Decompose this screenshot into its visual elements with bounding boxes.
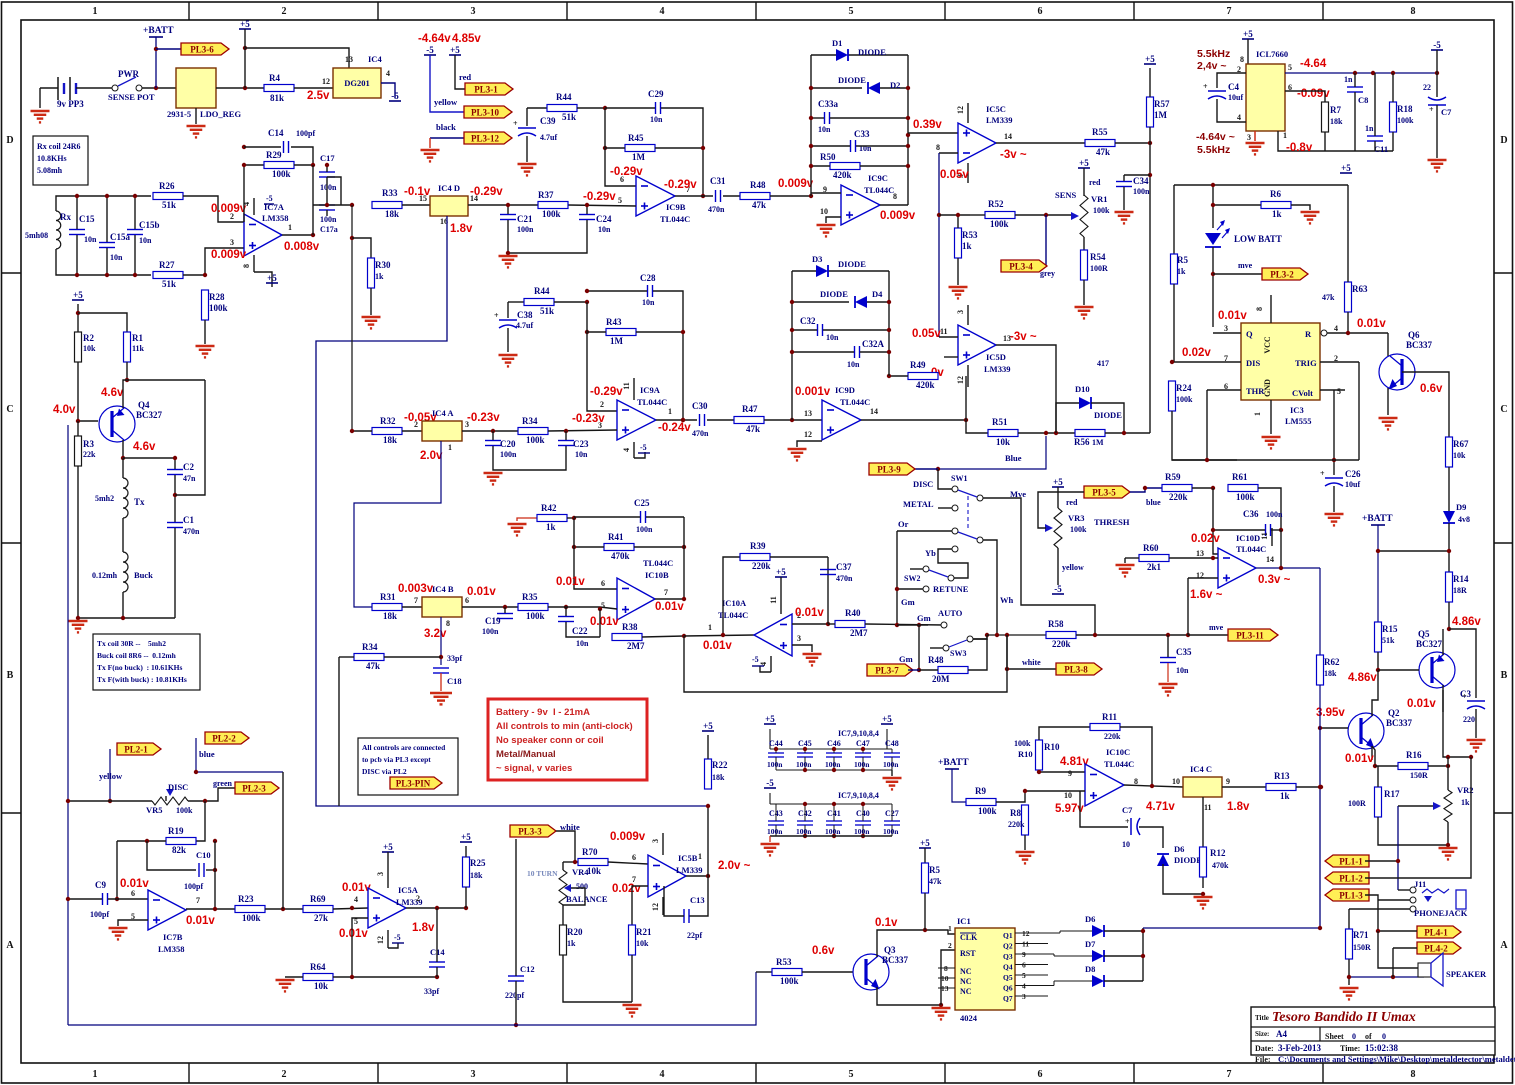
junction r43: [681, 330, 685, 422]
svg-text:IC10C: IC10C: [1106, 747, 1130, 757]
svg-text:10n: 10n: [576, 639, 589, 648]
svg-text:220: 220: [1463, 715, 1475, 724]
svg-text:BALANCE: BALANCE: [566, 894, 608, 904]
svg-text:DG201: DG201: [344, 78, 370, 88]
svg-text:C46: C46: [827, 739, 841, 748]
svg-text:red: red: [459, 72, 471, 82]
ground: [362, 317, 381, 328]
junction fb: [242, 145, 246, 167]
svg-text:1: 1: [288, 223, 292, 232]
svg-text:4.7uf: 4.7uf: [516, 321, 533, 330]
wire c12 bottom: [515, 981, 517, 1025]
svg-text:AUTO: AUTO: [938, 608, 963, 618]
wire r17 top: [1377, 766, 1379, 787]
svg-text:3: 3: [1224, 324, 1228, 333]
svg-text:14: 14: [1004, 132, 1012, 141]
svg-text:R42: R42: [541, 503, 557, 513]
svg-text:100n: 100n: [1133, 187, 1150, 196]
svg-text:10n: 10n: [575, 450, 588, 459]
wire d1 rail left: [810, 55, 812, 196]
inductor Rx: [56, 211, 61, 249]
decoupling bank +5: [764, 714, 893, 770]
op-amp IC5A: [368, 888, 406, 928]
svg-text:C30: C30: [692, 401, 708, 411]
wire sw3 stub: [930, 647, 943, 649]
svg-text:-5: -5: [752, 655, 759, 664]
wire bottom long bus: [68, 972, 756, 1025]
svg-text:R14: R14: [1453, 574, 1469, 584]
wire r61 right: [1258, 488, 1281, 530]
ground: [508, 524, 527, 535]
svg-text:BC327: BC327: [136, 410, 163, 420]
wire d2 row b: [880, 87, 908, 89]
wire c32a b: [860, 351, 889, 353]
svg-text:Q2: Q2: [1003, 942, 1013, 951]
svg-text:R11: R11: [1102, 712, 1118, 722]
wire wiper down: [165, 796, 167, 801]
wire c1 bottom: [174, 528, 176, 618]
svg-text:1.6v ~: 1.6v ~: [1190, 589, 1223, 601]
svg-text:DIS: DIS: [1246, 358, 1260, 368]
wire c18 bottom: [440, 673, 442, 691]
power stub IC5B 3: [662, 833, 664, 855]
power stub IC5C pin3: [967, 163, 969, 183]
power stub IC10A +5: [780, 592, 782, 614]
resistor R16: [1398, 750, 1428, 770]
svg-text:SPEAKER: SPEAKER: [1446, 969, 1487, 979]
junction c20: [491, 429, 495, 433]
wire r49 loop: [965, 376, 967, 420]
wire c28 right: [653, 291, 683, 420]
svg-text:R8: R8: [1010, 808, 1021, 818]
junction c23: [564, 429, 568, 433]
resistor R4: [264, 73, 294, 103]
svg-text:B: B: [1501, 670, 1508, 681]
wire 7660 pin2: [1217, 73, 1246, 88]
switch SW1b: [952, 528, 983, 543]
transistor Q3: [853, 945, 909, 990]
wire to PL3-6: [156, 48, 181, 50]
wire c34 tap: [1124, 174, 1150, 176]
svg-text:VCC: VCC: [1263, 336, 1272, 354]
wire ic4d out: [468, 204, 538, 206]
wire c17 chain: [326, 165, 328, 172]
svg-text:R47: R47: [742, 404, 758, 414]
wire feedback up: [244, 165, 264, 222]
svg-text:Q6: Q6: [1003, 984, 1013, 993]
junction out 14: [1279, 566, 1283, 570]
resistor R63: [1345, 282, 1368, 312]
wire r5 bottom: [1173, 284, 1175, 362]
diode D6: [1157, 854, 1169, 866]
switch SW1: [951, 474, 983, 501]
capacitor C15b: [127, 220, 160, 235]
wire c31 to r48: [723, 195, 740, 197]
svg-text:R51: R51: [992, 417, 1008, 427]
wire q5 emitter up: [1442, 629, 1444, 655]
svg-text:100pf: 100pf: [184, 882, 203, 891]
capacitor C40: [854, 804, 871, 836]
wire pl4-2 down: [1392, 948, 1394, 977]
wire ic9d out: [861, 419, 966, 421]
svg-text:+5: +5: [1053, 477, 1063, 487]
svg-text:C32A: C32A: [862, 339, 884, 349]
wire ground rail: [78, 617, 175, 619]
op-amp IC9B: [636, 176, 675, 216]
IC ICL7660: [1246, 64, 1285, 131]
capacitor C48: [883, 739, 900, 770]
capacitor C46: [825, 739, 842, 770]
svg-text:0.01v: 0.01v: [1345, 753, 1374, 765]
junction r13 out: [1319, 785, 1323, 789]
power stub IC7A pin4: [253, 198, 255, 215]
junction pl2 leads: [108, 770, 198, 803]
svg-text:470n: 470n: [692, 429, 709, 438]
wire r22 net: [707, 806, 709, 876]
resistor R67: [1446, 437, 1469, 467]
junction r52 tap: [937, 213, 941, 217]
svg-text:6: 6: [131, 889, 135, 898]
svg-text:+: +: [1320, 469, 1325, 478]
svg-text:R3: R3: [83, 439, 94, 449]
svg-text:D7: D7: [1085, 939, 1096, 949]
svg-text:D8: D8: [1085, 964, 1095, 974]
svg-text:R59: R59: [1165, 472, 1181, 482]
junction bus taps: [1318, 785, 1322, 930]
capacitor C25: [634, 498, 650, 523]
junction gm2: [917, 668, 921, 672]
junction y635: [995, 633, 1009, 637]
wire r71 chain: [1348, 909, 1350, 929]
wire plus to r38: [599, 609, 601, 637]
wire c14b bottom: [436, 967, 438, 977]
svg-text:14: 14: [870, 407, 878, 416]
svg-text:All controls are connected: All controls are connected: [362, 743, 446, 752]
wire c2 tap: [175, 380, 205, 495]
wire c38 top: [507, 302, 509, 318]
wire fb cap loop: [244, 146, 281, 148]
junction q2 em: [1373, 764, 1377, 768]
wire fb rail: [587, 302, 617, 411]
wire pl1-3 lead: [1365, 895, 1378, 931]
wire r58 right: [1076, 634, 1188, 636]
wire ic5b out: [686, 875, 708, 877]
inductor Buck: [123, 552, 128, 592]
diode D8: [1092, 975, 1104, 987]
svg-text:2: 2: [282, 6, 287, 17]
svg-text:4: 4: [622, 448, 631, 452]
svg-text:7: 7: [196, 896, 200, 905]
wire r44b right: [554, 301, 587, 303]
wire d6 bottom: [1163, 864, 1203, 894]
resistor R28: [202, 290, 228, 320]
svg-text:C31: C31: [710, 176, 726, 186]
svg-text:13: 13: [345, 55, 353, 64]
svg-text:ICL7660: ICL7660: [1256, 49, 1288, 59]
wire pl3-9: [910, 468, 938, 470]
wire +5 rail to IC4 pin13: [245, 48, 349, 68]
power +5: [382, 842, 394, 852]
ground: [1194, 897, 1213, 908]
wire d3 rail right: [888, 271, 890, 376]
wire c35 bottom: [1167, 663, 1169, 682]
svg-text:4: 4: [354, 895, 358, 904]
wire metal stub: [938, 507, 952, 509]
ground: [761, 844, 780, 855]
svg-text:100k: 100k: [1093, 206, 1110, 215]
wire pl2-1 lead: [109, 749, 111, 801]
svg-text:R45: R45: [628, 133, 644, 143]
junction r16 out: [1446, 764, 1450, 768]
resistor R7: [1322, 102, 1342, 132]
capacitor C37: [820, 562, 852, 575]
wire c17a side: [327, 177, 341, 205]
svg-text:Sheet: Sheet: [1325, 1032, 1344, 1041]
op-amp IC7B: [148, 890, 186, 930]
wire x1448 link: [1447, 757, 1449, 790]
svg-text:100k: 100k: [209, 303, 228, 313]
svg-text:THRESH: THRESH: [1094, 517, 1130, 527]
svg-text:C25: C25: [634, 498, 650, 508]
wire c36 right: [1271, 529, 1281, 531]
svg-text:1: 1: [448, 443, 452, 452]
svg-text:DIODE: DIODE: [1094, 410, 1122, 420]
ground: [499, 256, 518, 267]
wire ic4d pin16 long loop: [316, 216, 708, 806]
wire q4 collector: [123, 380, 205, 408]
svg-text:D1: D1: [832, 38, 842, 48]
IC3 pin4 circle: [1321, 330, 1327, 336]
ground: [276, 980, 295, 991]
svg-text:TL044C: TL044C: [840, 397, 870, 407]
junction r39: [721, 633, 725, 637]
wire bank2 bottom rail: [770, 835, 892, 837]
svg-text:100n: 100n: [500, 450, 517, 459]
wire fb rail 684: [683, 517, 685, 599]
ground: [1379, 418, 1398, 429]
switch METAL contact: [952, 505, 958, 511]
junction ic5a in: [350, 906, 354, 910]
svg-text:C48: C48: [885, 739, 899, 748]
svg-text:47k: 47k: [752, 200, 766, 210]
svg-text:black: black: [436, 122, 456, 132]
svg-text:20M: 20M: [932, 674, 950, 684]
wire r31 to ic4b: [402, 606, 422, 608]
svg-text:IC9A: IC9A: [640, 385, 661, 395]
svg-text:51k: 51k: [162, 200, 176, 210]
junction c18 node: [439, 655, 443, 659]
svg-text:PL3-9: PL3-9: [877, 464, 901, 474]
capacitor C43: [767, 804, 784, 836]
svg-text:R67: R67: [1453, 439, 1469, 449]
switch SW3: [943, 636, 973, 658]
svg-text:11: 11: [940, 327, 948, 336]
wire out node to ic10a: [684, 635, 754, 636]
svg-text:0.01v: 0.01v: [1407, 698, 1436, 710]
svg-text:100n: 100n: [517, 225, 534, 234]
svg-text:DIODE: DIODE: [838, 259, 866, 269]
capacitor C42: [796, 804, 813, 836]
resistor R40: [835, 608, 868, 638]
svg-text:0.01v: 0.01v: [795, 607, 824, 619]
svg-text:R55: R55: [1092, 127, 1108, 137]
svg-text:DIODE: DIODE: [1174, 855, 1202, 865]
svg-text:Tx F(with buck) : 10.81KHs: Tx F(with buck) : 10.81KHs: [97, 675, 187, 684]
junction emitter node: [121, 456, 125, 460]
capacitor C47: [854, 739, 871, 770]
op-amp IC9C: [841, 185, 880, 225]
svg-text:RST: RST: [960, 949, 976, 958]
resistor R47: [734, 404, 764, 434]
resistor R62: [1317, 655, 1340, 685]
svg-text:R29: R29: [266, 150, 282, 160]
wire c21 c24 bottom: [508, 220, 587, 253]
svg-text:27k: 27k: [314, 913, 328, 923]
resistor R22: [705, 759, 728, 789]
svg-text:PL4-2: PL4-2: [1424, 943, 1448, 953]
svg-text:4: 4: [386, 69, 390, 78]
svg-text:R48: R48: [928, 655, 944, 665]
svg-text:18R: 18R: [1453, 586, 1467, 595]
svg-text:10n: 10n: [826, 333, 839, 342]
svg-text:+BATT: +BATT: [938, 758, 969, 768]
inductor Tx: [123, 478, 128, 518]
wire r34b right: [384, 656, 441, 658]
svg-text:-0.23v: -0.23v: [572, 413, 605, 425]
wire r56 right: [1105, 432, 1150, 434]
svg-text:PHONEJACK: PHONEJACK: [1414, 908, 1468, 918]
svg-text:LM339: LM339: [676, 865, 702, 875]
wire ic5a plus: [352, 918, 368, 977]
svg-text:C1: C1: [183, 515, 194, 525]
wire ic5a out: [406, 907, 466, 909]
svg-text:PL1-1: PL1-1: [1339, 856, 1363, 866]
svg-text:+5: +5: [450, 45, 460, 55]
svg-text:PL2-1: PL2-1: [124, 744, 148, 754]
svg-text:R6: R6: [1270, 189, 1281, 199]
wire vr5 row: [68, 800, 152, 802]
junction q5 base: [1376, 668, 1380, 672]
diode D10: [1079, 397, 1091, 409]
wire r50 b: [860, 165, 908, 167]
svg-text:GND: GND: [1263, 379, 1272, 397]
svg-text:5.5kHz: 5.5kHz: [1197, 144, 1230, 156]
power stub IC5A 12: [387, 930, 389, 948]
svg-text:LDO_REG: LDO_REG: [200, 109, 241, 119]
svg-text:3.2v: 3.2v: [424, 628, 447, 640]
resistor R34: [354, 642, 384, 671]
junction plus net: [1023, 770, 1041, 793]
svg-text:Buck: Buck: [134, 570, 153, 580]
wire pl3-3 lead: [556, 831, 575, 862]
svg-text:BC337: BC337: [1386, 718, 1413, 728]
svg-text:10n: 10n: [642, 298, 655, 307]
svg-text:220k: 220k: [752, 561, 771, 571]
svg-text:IC9D: IC9D: [835, 385, 855, 395]
wire ic3 pin7: [1172, 361, 1241, 363]
svg-text:NC: NC: [960, 987, 972, 996]
ground: [1467, 740, 1486, 751]
wire r63 bottom: [1347, 312, 1349, 333]
svg-text:100n: 100n: [825, 760, 841, 769]
ground: [1075, 307, 1094, 318]
wire r35 right: [548, 607, 617, 609]
wire r54 gnd: [1083, 280, 1085, 305]
svg-text:R1: R1: [132, 333, 143, 343]
wire d1 row: [811, 54, 836, 56]
svg-text:8: 8: [1240, 55, 1244, 64]
resistor R25: [463, 857, 486, 887]
potentiometer: [1071, 195, 1088, 237]
junctions bank1: [774, 747, 865, 772]
wire ic7a out: [282, 234, 313, 236]
svg-text:PL3-8: PL3-8: [1064, 664, 1088, 674]
wire diode bus2: [1104, 955, 1143, 957]
svg-text:+BATT: +BATT: [1362, 514, 1393, 524]
svg-text:470n: 470n: [708, 205, 725, 214]
svg-text:6: 6: [632, 853, 636, 862]
svg-text:220pf: 220pf: [505, 991, 524, 1000]
wire pl1-3 down: [1378, 931, 1418, 968]
power +5: [919, 838, 931, 848]
svg-text:IC4 B: IC4 B: [432, 584, 454, 594]
resistor R44: [547, 92, 577, 122]
wire r11 right: [1120, 727, 1152, 785]
svg-text:IC1: IC1: [957, 916, 971, 926]
capacitor C14: [268, 128, 289, 153]
power stub IC5A 3: [387, 866, 389, 888]
svg-text:9: 9: [1226, 777, 1230, 786]
svg-text:LM358: LM358: [158, 944, 184, 954]
wire ic3 pin6: [1207, 389, 1241, 391]
wire r42 right: [567, 517, 574, 519]
svg-text:1: 1: [93, 1069, 98, 1080]
svg-text:3: 3: [376, 872, 385, 876]
junction c24: [585, 203, 589, 207]
svg-text:Q4: Q4: [138, 400, 150, 410]
svg-text:TRIG: TRIG: [1295, 358, 1317, 368]
wire r32 to ic4a: [402, 430, 422, 432]
wire c33a b: [830, 117, 908, 119]
svg-text:R16: R16: [1406, 750, 1422, 760]
wire ic10c plus: [1025, 790, 1085, 792]
svg-text:R24: R24: [1176, 383, 1192, 393]
power stub IC9A pin4: [633, 442, 635, 458]
wire r44 to node: [577, 107, 605, 109]
wire q5 c3 branch: [1449, 629, 1476, 698]
wire c24 top: [586, 205, 588, 214]
wire sw3 right: [973, 635, 987, 639]
wire r34b bus: [338, 657, 340, 806]
svg-text:+: +: [513, 119, 518, 128]
wire ic7b out: [186, 908, 235, 910]
svg-text:C22: C22: [572, 626, 588, 636]
svg-text:PL3-3: PL3-3: [518, 826, 542, 836]
svg-text:1k: 1k: [1280, 791, 1290, 801]
junction c22: [598, 607, 602, 611]
wire ic4b out: [462, 606, 518, 608]
ground: [109, 928, 128, 939]
svg-text:+: +: [494, 311, 499, 320]
wire c38 gnd: [507, 328, 509, 352]
svg-text:1M: 1M: [610, 336, 624, 346]
svg-text:8: 8: [936, 143, 940, 152]
capacitor C1: [167, 515, 194, 528]
svg-text:220k: 220k: [1008, 820, 1025, 829]
resistor R9: [966, 786, 997, 816]
svg-text:yellow: yellow: [99, 771, 123, 781]
svg-text:-0.29v: -0.29v: [610, 166, 643, 178]
